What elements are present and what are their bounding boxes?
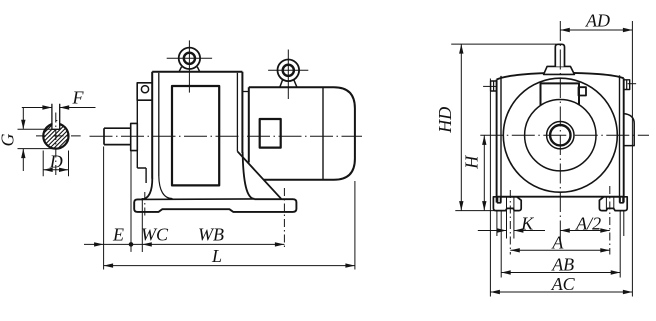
gearbox top edge xyxy=(152,71,242,73)
svg-text:AD: AD xyxy=(585,11,610,31)
dimension F line xyxy=(22,107,96,109)
right foot slot edges xyxy=(606,198,613,210)
ext line L right xyxy=(354,181,356,270)
svg-text:A: A xyxy=(551,232,564,252)
dim line L xyxy=(104,265,355,267)
HD dim line xyxy=(460,44,462,211)
big circle xyxy=(503,78,617,192)
svg-text:F: F xyxy=(72,88,85,108)
rib gusset diagonal xyxy=(237,151,281,199)
right tab line xyxy=(628,83,637,85)
G extension lines xyxy=(18,129,58,148)
left corner tab xyxy=(491,81,497,91)
motor eyebolt centerlines xyxy=(287,50,289,100)
motor seam line xyxy=(322,87,324,180)
housing edge ext below feet xyxy=(497,211,624,236)
foot outline xyxy=(134,199,296,212)
gearbox eyebolt boss xyxy=(179,67,200,72)
left wall fillet to foot xyxy=(141,178,152,199)
hatching xyxy=(27,118,88,150)
centerline vertical of detail xyxy=(55,113,57,177)
left tab line xyxy=(483,85,497,87)
ext line shaft end xyxy=(103,147,105,270)
svg-text:WB: WB xyxy=(198,225,224,245)
svg-text:K: K xyxy=(520,214,534,234)
svg-text:H: H xyxy=(462,155,482,170)
svg-text:HD: HD xyxy=(435,107,455,134)
right foot xyxy=(599,197,627,211)
svg-text:E: E xyxy=(112,225,124,245)
AB ext lines xyxy=(501,211,620,278)
gearbox right wall outer xyxy=(241,72,243,153)
keyway slot white xyxy=(53,121,59,128)
dimension D ext lines xyxy=(43,151,68,177)
output shaft xyxy=(104,128,131,144)
dimension D line xyxy=(43,169,68,171)
housing top arc xyxy=(497,73,624,80)
svg-text:G: G xyxy=(0,134,18,147)
bracket hole xyxy=(141,86,148,93)
terminal box xyxy=(260,119,281,148)
right wall fillet to foot xyxy=(243,152,255,199)
svg-text:D: D xyxy=(49,151,63,171)
gearbox eyebolt ring xyxy=(179,48,200,69)
housing right edge outer xyxy=(623,78,625,202)
left foot xyxy=(493,197,521,211)
middle circle xyxy=(525,100,596,171)
horizontal centerline xyxy=(480,134,649,136)
bracket with hole xyxy=(137,83,152,100)
dim AC xyxy=(490,291,632,293)
motor face xyxy=(248,87,250,162)
svg-text:WC: WC xyxy=(141,225,169,245)
housing bottom line xyxy=(497,196,624,198)
vertical centerline xyxy=(559,21,561,244)
K ext lines / bolt slot edges xyxy=(507,198,514,239)
hub circle inner xyxy=(550,125,570,145)
housing left edge inner xyxy=(500,76,502,203)
dimension G line xyxy=(22,108,24,172)
dim AD xyxy=(560,29,632,31)
gearbox left wall inner xyxy=(158,73,160,176)
motor body outline xyxy=(249,87,355,180)
H dim line xyxy=(483,135,485,210)
main horizontal centerline xyxy=(90,135,363,137)
keyway slot lines xyxy=(52,104,60,130)
hub circle outer xyxy=(547,122,574,149)
svg-text:A/2: A/2 xyxy=(575,214,601,234)
dim AB xyxy=(501,272,620,274)
svg-text:AB: AB xyxy=(551,255,574,275)
foot hole centerline right xyxy=(283,188,285,250)
gearbox eyebolt centerlines xyxy=(188,40,190,92)
AC left extension line xyxy=(489,79,491,297)
housing right edge inner xyxy=(619,75,621,202)
shaft collar xyxy=(131,123,138,150)
foot top line under gearbox xyxy=(141,198,255,201)
motor eyebolt ring xyxy=(278,60,300,82)
svg-text:AC: AC xyxy=(551,274,576,294)
foot hole centerline left xyxy=(509,190,511,255)
boss plate edge xyxy=(137,100,146,183)
connector flange line xyxy=(242,91,248,93)
dot at gearbox face xyxy=(129,242,134,247)
shaft section circle xyxy=(43,124,68,149)
terminal box front xyxy=(541,83,580,105)
terminal box side lug xyxy=(579,87,587,95)
dim line E WC WB xyxy=(84,243,284,245)
input shaft xyxy=(555,44,564,66)
gearbox left wall outer xyxy=(151,72,153,179)
housing left edge outer xyxy=(496,80,498,203)
motor eyebolt boss xyxy=(280,80,297,88)
ext line WC right xyxy=(141,198,143,252)
foot hole centerline right xyxy=(609,186,611,255)
HD top ext line xyxy=(451,43,556,45)
input shaft boss xyxy=(544,66,575,74)
foot hole centerline left xyxy=(144,192,146,218)
left inner fillet xyxy=(159,176,173,199)
dim A xyxy=(510,249,610,251)
gearbox right wall inner xyxy=(236,73,238,152)
ext line gearbox face xyxy=(130,151,132,252)
centerline horizontal of detail xyxy=(36,135,81,137)
AC/AD right extension line xyxy=(631,21,633,297)
dim K xyxy=(478,230,545,232)
bottom ext line H/HD xyxy=(455,210,495,212)
svg-text:L: L xyxy=(211,246,222,266)
inspection window xyxy=(172,86,219,185)
right side bump xyxy=(624,114,635,146)
dim A/2 xyxy=(560,230,610,232)
right corner tab xyxy=(624,80,630,90)
